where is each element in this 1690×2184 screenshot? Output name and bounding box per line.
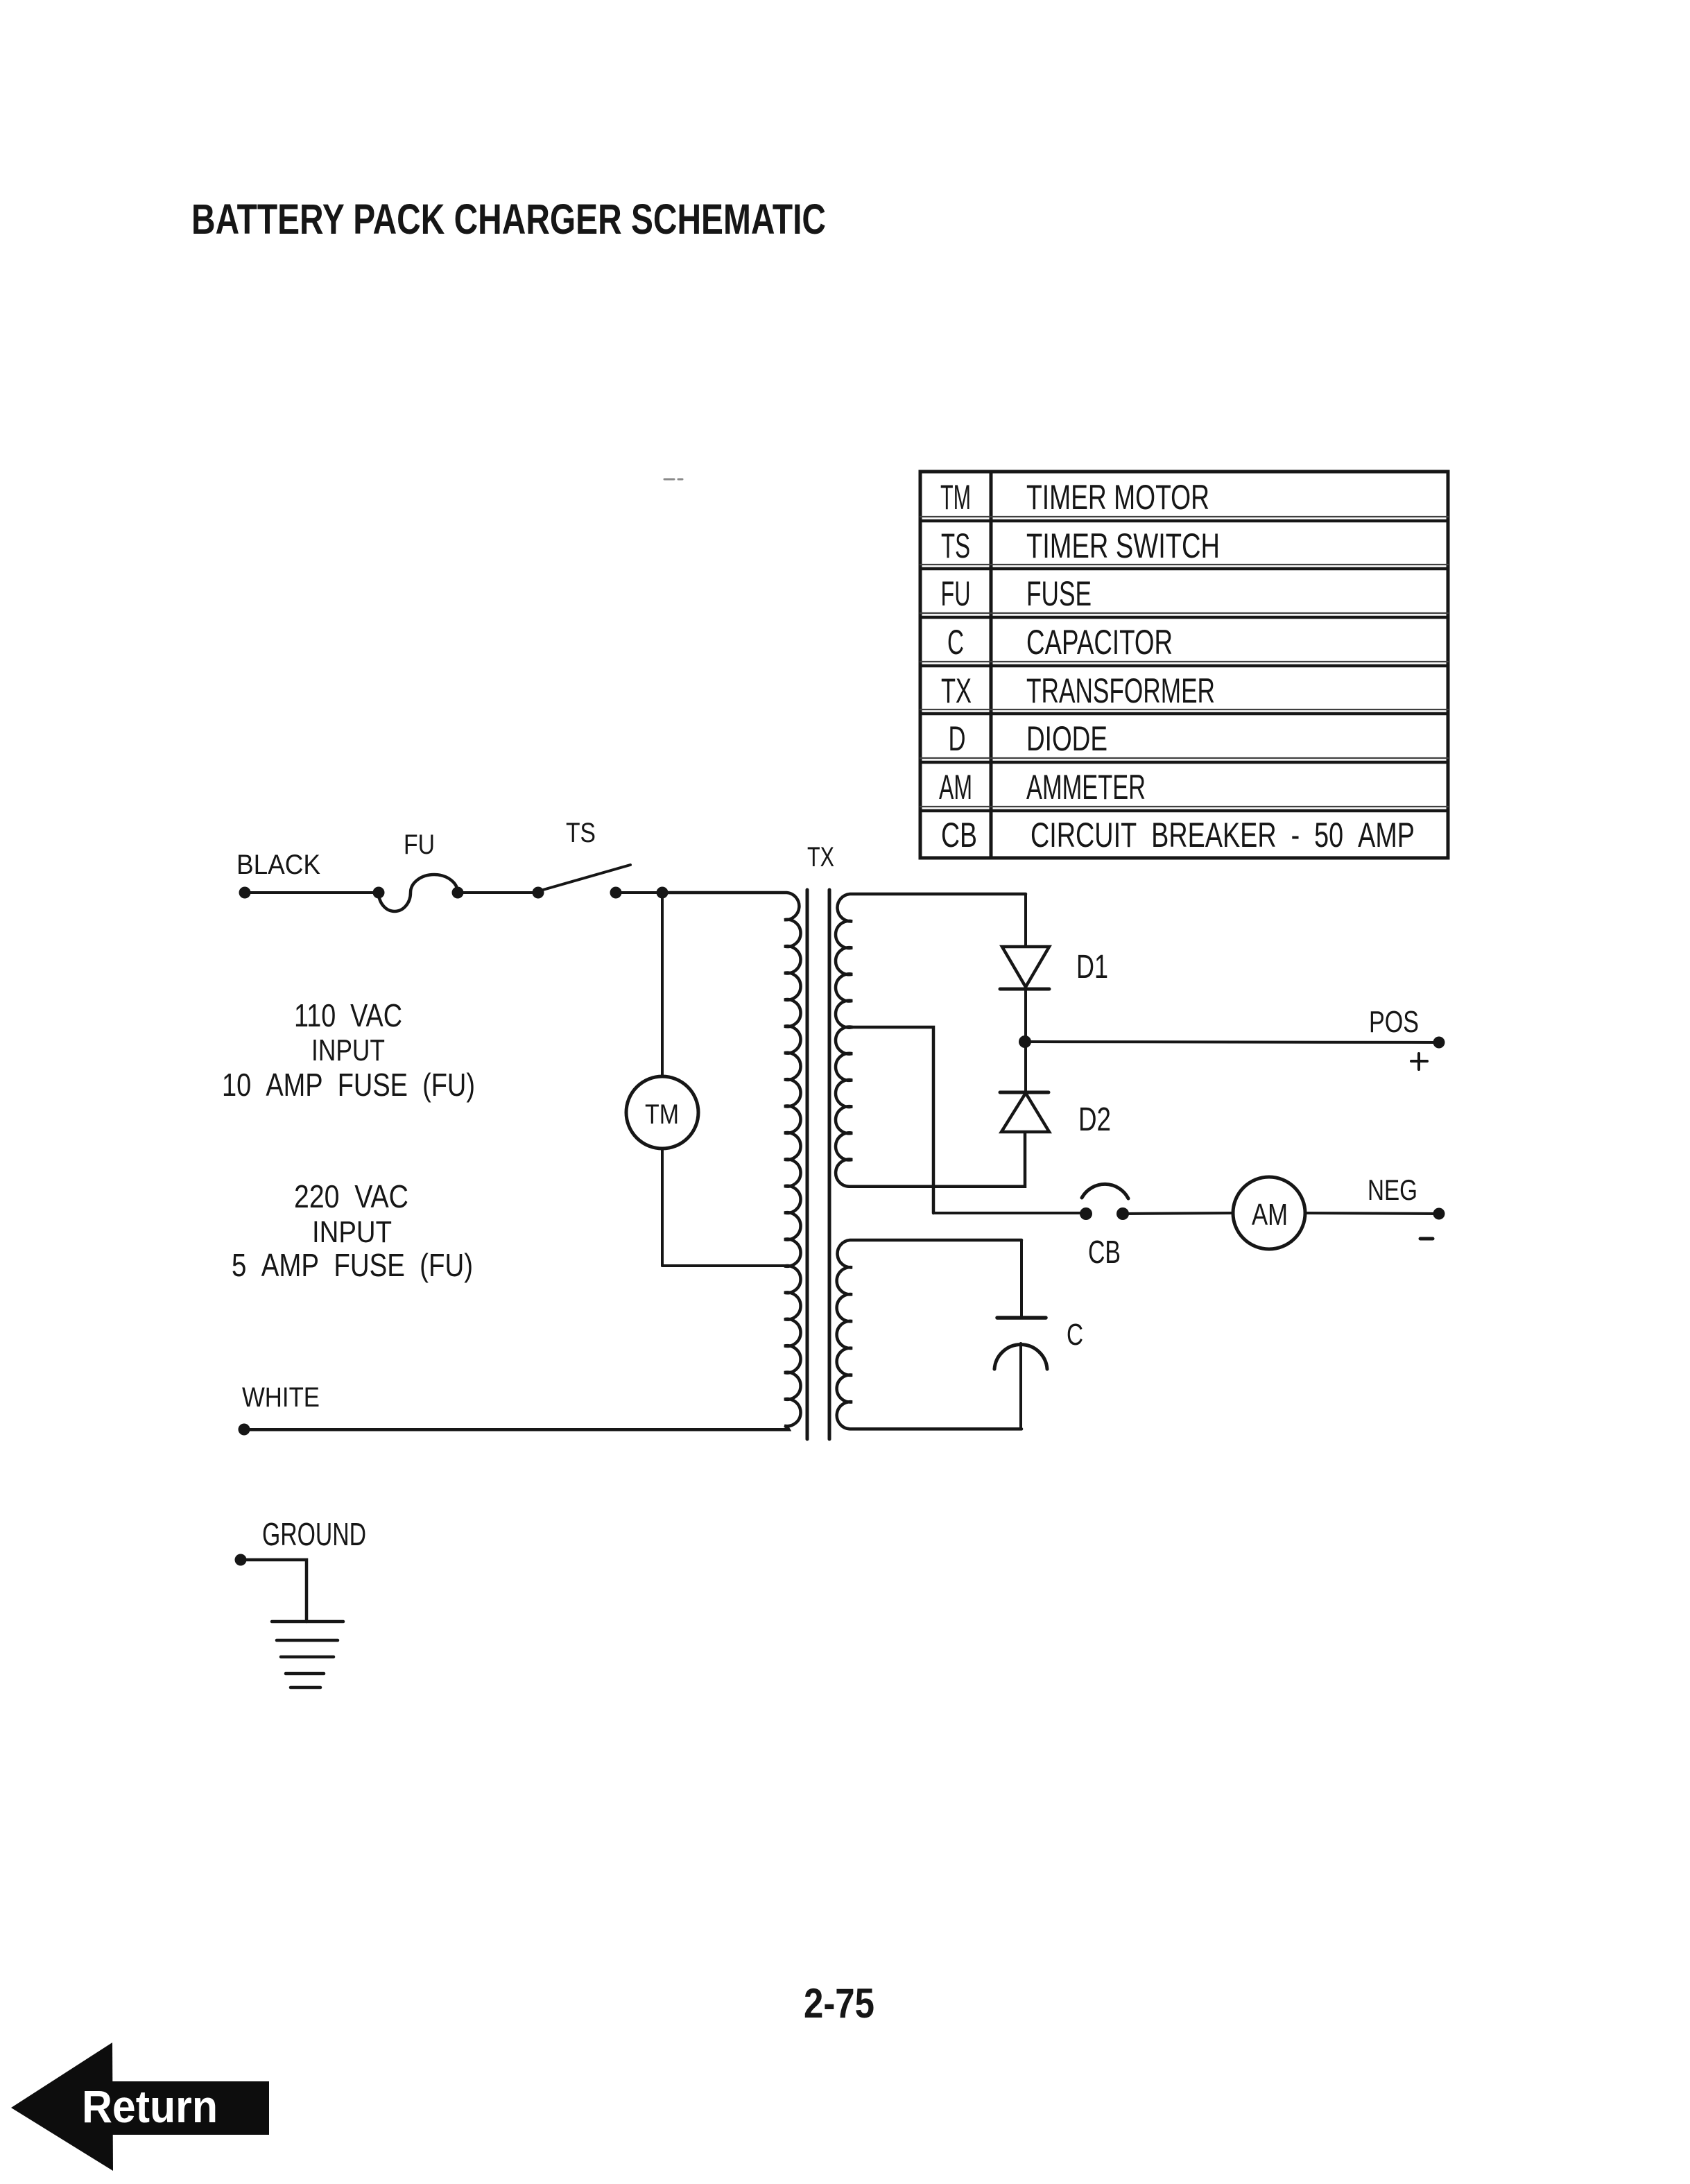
svg-text:C: C bbox=[947, 623, 964, 662]
svg-text:TIMER MOTOR: TIMER MOTOR bbox=[1026, 478, 1209, 517]
node junction dot TM branch bbox=[657, 887, 669, 899]
svg-text:GROUND: GROUND bbox=[262, 1516, 366, 1552]
node POS terminal dot bbox=[1433, 1037, 1445, 1049]
switch TS blade bbox=[543, 865, 630, 890]
svg-text:CIRCUIT BREAKER - 50 AMP: CIRCUIT BREAKER - 50 AMP bbox=[1031, 816, 1415, 854]
svg-text:5 AMP FUSE (FU): 5 AMP FUSE (FU) bbox=[232, 1247, 473, 1283]
switch TS pivot dot bbox=[533, 887, 544, 899]
svg-text:D: D bbox=[949, 719, 966, 758]
wire POS junction to D2 cathode bbox=[1024, 1042, 1027, 1092]
label plus sign bbox=[1411, 1054, 1427, 1069]
node GROUND terminal dot bbox=[235, 1554, 247, 1566]
timer motor TM circle bbox=[626, 1076, 698, 1149]
svg-text:CB: CB bbox=[1088, 1234, 1121, 1270]
wire TM branch vertical upper bbox=[661, 893, 664, 1076]
wire NEG rail from center tap to CB bbox=[933, 1212, 1086, 1214]
svg-text:CB: CB bbox=[941, 816, 977, 854]
svg-text:BLACK: BLACK bbox=[236, 850, 320, 880]
svg-text:TM: TM bbox=[940, 478, 971, 517]
svg-text:10 AMP FUSE (FU): 10 AMP FUSE (FU) bbox=[222, 1067, 475, 1103]
wire fuse to switch pivot bbox=[458, 891, 538, 894]
svg-text:220 VAC: 220 VAC bbox=[294, 1178, 408, 1214]
switch TS contact dot bbox=[610, 887, 622, 899]
transformer TX secondary winding B (lead to D2 anode) bbox=[836, 1027, 1025, 1187]
svg-text:INPUT: INPUT bbox=[311, 1033, 385, 1067]
wire ammeter to NEG terminal bbox=[1305, 1213, 1439, 1214]
circuit breaker CB right dot bbox=[1116, 1207, 1129, 1220]
transformer TX primary winding (with WHITE bottom lead) bbox=[244, 893, 801, 1429]
capacitor C curved plate bbox=[994, 1345, 1047, 1369]
svg-text:TX: TX bbox=[941, 671, 972, 710]
ground bar 2 bbox=[277, 1639, 338, 1642]
svg-text:TS: TS bbox=[566, 818, 596, 848]
node BLACK terminal dot bbox=[239, 887, 251, 899]
legend row line 1 bbox=[920, 516, 1448, 517]
svg-text:FU: FU bbox=[941, 574, 971, 613]
diode D1 cathode bar bbox=[1000, 988, 1049, 991]
legend row line 6 bbox=[920, 757, 1448, 759]
svg-text:FUSE: FUSE bbox=[1026, 574, 1092, 613]
transformer TX secondary winding C (capacitor winding) bbox=[837, 1240, 1021, 1429]
wire D1 anode from secondary A bbox=[1024, 894, 1027, 947]
transformer TX secondary center tap lead bbox=[852, 1027, 933, 1213]
svg-text:BATTERY PACK CHARGER SCHEMATIC: BATTERY PACK CHARGER SCHEMATIC bbox=[191, 196, 826, 243]
diode D2 triangle bbox=[1001, 1093, 1049, 1132]
svg-text:TIMER SWITCH: TIMER SWITCH bbox=[1026, 526, 1220, 565]
legend row line 5 bbox=[920, 709, 1448, 710]
node POS junction dot bbox=[1019, 1035, 1031, 1048]
svg-text:TS: TS bbox=[941, 526, 970, 565]
circuit breaker CB arc bbox=[1082, 1184, 1128, 1198]
Return button shaft bbox=[112, 2081, 269, 2135]
scan speck dashes bbox=[664, 479, 682, 481]
wire TM branch vertical lower bbox=[661, 1149, 664, 1266]
svg-text:AMMETER: AMMETER bbox=[1026, 768, 1146, 807]
wire ground lead bbox=[241, 1560, 307, 1622]
node WHITE terminal dot bbox=[239, 1424, 250, 1436]
svg-text:D1: D1 bbox=[1076, 949, 1108, 986]
ammeter AM circle bbox=[1233, 1177, 1305, 1249]
ground bar 3 bbox=[281, 1656, 334, 1659]
svg-text:Return: Return bbox=[82, 2081, 218, 2132]
legend table frame bbox=[920, 472, 1448, 858]
svg-text:DIODE: DIODE bbox=[1026, 719, 1107, 758]
circuit breaker CB left dot bbox=[1080, 1207, 1092, 1220]
capacitor C bottom lead bbox=[1019, 1343, 1022, 1429]
wire switch contact to transformer primary bbox=[616, 891, 664, 894]
wire BLACK terminal to fuse bbox=[245, 891, 379, 894]
legend column divider bbox=[990, 472, 993, 858]
wire POS rail bbox=[1025, 1042, 1439, 1042]
legend row line 4 bbox=[920, 661, 1448, 662]
svg-text:WHITE: WHITE bbox=[242, 1382, 320, 1413]
svg-text:INPUT: INPUT bbox=[312, 1215, 392, 1249]
label minus sign bbox=[1420, 1237, 1433, 1241]
svg-text:2-75: 2-75 bbox=[804, 1980, 874, 2027]
diode D1 triangle bbox=[1002, 947, 1049, 987]
legend row line 7 bbox=[920, 806, 1448, 807]
legend row line 3 bbox=[920, 612, 1448, 614]
svg-text:AM: AM bbox=[939, 768, 972, 807]
transformer TX secondary winding A (top, lead to D1) bbox=[836, 894, 1026, 1028]
ground bar 1 bbox=[272, 1620, 343, 1624]
svg-text:C: C bbox=[1067, 1318, 1083, 1352]
wire TM branch to primary tap bbox=[662, 1264, 784, 1267]
Return button arrow head bbox=[11, 2043, 113, 2171]
legend abbreviations column bbox=[939, 478, 977, 854]
svg-text:POS: POS bbox=[1369, 1005, 1419, 1039]
svg-text:TX: TX bbox=[807, 842, 834, 872]
capacitor C top lead bbox=[1020, 1240, 1023, 1316]
svg-text:FU: FU bbox=[404, 829, 435, 860]
fuse FU symbol bbox=[379, 875, 458, 911]
svg-text:D2: D2 bbox=[1078, 1101, 1111, 1138]
svg-text:TRANSFORMER: TRANSFORMER bbox=[1026, 671, 1215, 710]
svg-text:AM: AM bbox=[1252, 1198, 1288, 1232]
capacitor C top plate bbox=[997, 1316, 1046, 1320]
transformer TX core line right bbox=[828, 890, 831, 1439]
svg-text:CAPACITOR: CAPACITOR bbox=[1026, 623, 1173, 662]
legend description column bbox=[1026, 478, 1415, 854]
svg-text:NEG: NEG bbox=[1368, 1173, 1417, 1206]
transformer TX core line left bbox=[806, 890, 809, 1439]
diode D2 cathode bar bbox=[1000, 1091, 1049, 1094]
legend row line 2 bbox=[920, 564, 1448, 565]
wire CB to ammeter bbox=[1123, 1213, 1233, 1214]
wire D1 cathode to POS junction bbox=[1024, 989, 1027, 1042]
svg-text:TM: TM bbox=[645, 1099, 679, 1130]
ground bar 5 bbox=[291, 1686, 320, 1689]
fuse FU right dot bbox=[452, 887, 464, 899]
ground bar 4 bbox=[286, 1672, 324, 1676]
svg-text:110 VAC: 110 VAC bbox=[294, 997, 402, 1033]
node NEG terminal dot bbox=[1433, 1208, 1445, 1220]
fuse FU left dot bbox=[373, 887, 385, 899]
